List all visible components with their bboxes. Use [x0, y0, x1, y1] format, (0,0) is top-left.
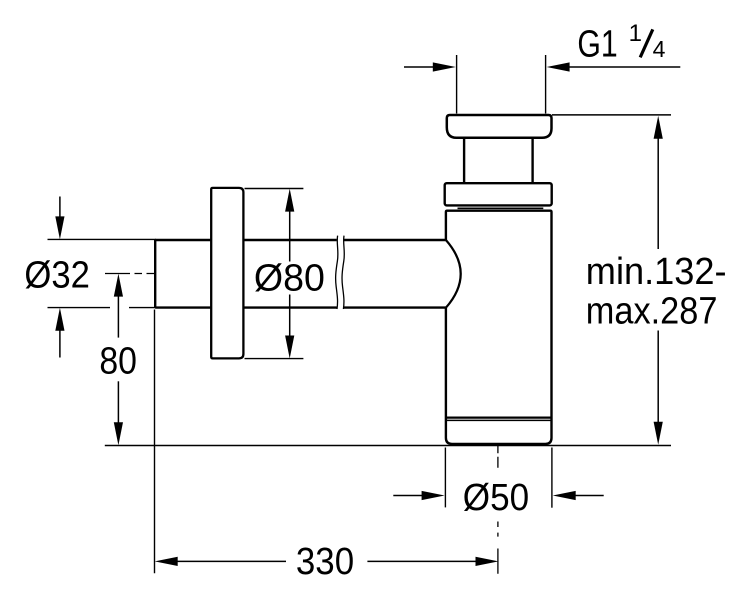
wall rosette disc: [211, 188, 243, 359]
Ø80 arrow down: [285, 336, 294, 359]
Ø50 arrow pointing right: [422, 491, 445, 500]
top flange (basin connection flange): [447, 115, 552, 138]
Ø32 extension line bottom: [48, 307, 157, 309]
Ø32 arrow pointing up: [55, 308, 64, 331]
threaded neck: [464, 139, 532, 183]
G thread arrow pointing left: [547, 62, 570, 71]
bottom reference line: [105, 445, 671, 447]
Ø80 arrow up: [285, 189, 294, 212]
Ø50 extension line right: [551, 448, 553, 508]
svg-text:min.132-: min.132-: [586, 251, 727, 293]
Ø32 upper arrow line: [59, 197, 61, 218]
G thread arrow pointing right: [433, 62, 456, 71]
Ø50 right arrow line: [575, 495, 604, 497]
svg-text:80: 80: [99, 340, 137, 382]
Ø80 dimension line lower: [289, 295, 291, 336]
Ø80 extension line top: [245, 188, 304, 190]
330 dimension line left part: [177, 560, 286, 562]
washer line under nut: [458, 207, 544, 209]
svg-text:Ø50: Ø50: [463, 477, 529, 519]
Ø50 arrow pointing left: [553, 491, 576, 500]
80 dimension arrow down: [114, 422, 123, 445]
330 arrow pointing right: [476, 557, 499, 566]
svg-text:1: 1: [629, 20, 642, 47]
pipe break mark left: [336, 236, 338, 309]
svg-text:Ø32: Ø32: [24, 255, 90, 297]
Ø32 extension line top: [48, 238, 157, 240]
min-max dimension arrow up: [654, 116, 663, 139]
horizontal inlet pipe: [155, 240, 446, 308]
body centre line (dash-dot): [497, 446, 499, 574]
Ø50 left arrow line: [393, 495, 422, 497]
svg-text:330: 330: [296, 541, 354, 583]
330 extension line at pipe end: [154, 310, 156, 574]
G thread dimension line right part: [569, 66, 680, 68]
330 arrow pointing left: [155, 557, 178, 566]
svg-text:max.287: max.287: [586, 291, 718, 333]
Ø32 arrow pointing down: [55, 216, 64, 239]
Ø50 extension line left: [444, 448, 446, 508]
label G1 1/4: [577, 20, 665, 66]
pipe centre line (dash-dot): [105, 273, 156, 275]
body bottom ring line 2: [446, 419, 552, 421]
inlet dome arc inside body: [446, 240, 461, 308]
Ø32 lower arrow line: [59, 330, 61, 358]
union nut: [445, 183, 552, 205]
top reference line from flange: [552, 114, 671, 116]
pipe break mark right: [342, 236, 344, 309]
min-max dimension line lower: [657, 331, 659, 424]
body bottom ring line 1: [446, 417, 552, 419]
svg-text:G1: G1: [577, 24, 617, 66]
G thread dimension extension line left: [456, 55, 458, 114]
G thread dimension extension line right: [545, 55, 547, 114]
label min.132-max.287: [586, 251, 727, 332]
min-max dimension line upper: [657, 138, 659, 249]
svg-text:Ø80: Ø80: [254, 258, 325, 300]
Ø80 dimension line upper: [289, 211, 291, 262]
min-max dimension arrow down: [654, 422, 663, 445]
80 dimension arrow up: [114, 274, 123, 297]
svg-text:4: 4: [653, 36, 666, 62]
80 dimension line lower: [117, 381, 119, 423]
Ø80 extension line bottom: [245, 358, 304, 360]
80 dimension line upper: [117, 296, 119, 338]
G thread dimension line left part: [404, 66, 434, 68]
330 dimension line right part: [367, 560, 476, 562]
trap body (cup): [446, 211, 552, 444]
